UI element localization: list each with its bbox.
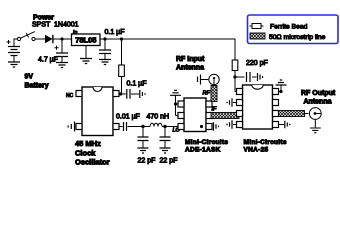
switch S1 SPST bbox=[17, 32, 35, 41]
svg-text:45 MHz: 45 MHz bbox=[75, 139, 101, 148]
svg-text:470 nH: 470 nH bbox=[147, 114, 170, 121]
capacitor C9 220pF bbox=[235, 72, 257, 82]
ground C2 bbox=[99, 60, 111, 65]
capacitor C8 antenna feed bbox=[198, 75, 201, 85]
regulator U1 78L05 bbox=[72, 34, 101, 46]
ground amplifier pin4 bbox=[227, 120, 232, 128]
wire antenna to connector bbox=[201, 79, 208, 81]
node junction oscillator branch bbox=[120, 37, 123, 40]
svg-text:22 pF: 22 pF bbox=[160, 158, 178, 165]
label RF Input Antenna bbox=[176, 56, 205, 72]
wire battery plus to switch bbox=[14, 39, 17, 47]
ground oscillator enable pin bbox=[68, 122, 76, 132]
ground battery bbox=[8, 62, 20, 67]
wire amplifier pin2 bbox=[233, 102, 237, 104]
ground C3 bbox=[140, 90, 145, 98]
capacitor C7 22pF bbox=[160, 127, 171, 149]
label 45 MHz Clock Oscillator bbox=[75, 139, 110, 167]
legend microstrip icon bbox=[250, 33, 265, 39]
legend ferrite bead icon bbox=[250, 24, 264, 29]
inductor L1 470nH bbox=[150, 123, 162, 126]
wire inductor to LO pin bbox=[162, 126, 178, 128]
label Power SPST bbox=[32, 15, 54, 29]
wire output connector shield to ground bbox=[314, 119, 316, 127]
svg-text:RF Input: RF Input bbox=[176, 56, 205, 63]
capacitor C1 4.7uF bbox=[55, 39, 69, 62]
ground amplifier top bbox=[276, 80, 287, 85]
svg-text:ADE-1ASK: ADE-1ASK bbox=[185, 147, 221, 154]
svg-text:NC: NC bbox=[66, 93, 74, 99]
ground C7 bbox=[160, 148, 171, 153]
antenna J2 RF output connector bbox=[309, 108, 321, 120]
ferrite bead FB2 bbox=[232, 60, 238, 71]
microstrip line output bbox=[279, 111, 305, 117]
antenna J1 RF input connector bbox=[209, 74, 219, 85]
wire regulator ground pin bbox=[85, 46, 87, 59]
wire amplifier pin8 to ground bbox=[279, 85, 282, 91]
capacitor C5 0.01uF bbox=[124, 122, 127, 131]
wire battery minus to ground bbox=[13, 56, 15, 63]
ground amplifier pin5 bbox=[285, 121, 290, 129]
capacitor C3 0.1uF bbox=[122, 89, 140, 99]
svg-text:Mini-Circuits: Mini-Circuits bbox=[244, 139, 287, 146]
svg-text:Oscillator: Oscillator bbox=[75, 158, 110, 167]
svg-text:1N4001: 1N4001 bbox=[54, 22, 79, 29]
wire oscillator output bbox=[119, 126, 150, 128]
svg-text:9V: 9V bbox=[25, 74, 34, 81]
ground mixer bbox=[170, 90, 181, 95]
diode D1 1N4001 bbox=[45, 35, 53, 43]
svg-text:220 pF: 220 pF bbox=[246, 60, 268, 67]
node junction L1 left bbox=[141, 125, 144, 128]
legend box bbox=[248, 15, 339, 44]
node junction C3 bbox=[119, 92, 122, 95]
node junction pin8 bbox=[279, 90, 282, 93]
svg-text:0.1 µF: 0.1 µF bbox=[127, 81, 147, 88]
label RF Output Antenna bbox=[301, 90, 336, 106]
svg-text:0.1 µF: 0.1 µF bbox=[105, 29, 125, 36]
svg-text:RF Output: RF Output bbox=[301, 90, 336, 97]
battery B1 9V bbox=[7, 40, 21, 56]
svg-text:Antenna: Antenna bbox=[304, 99, 332, 106]
wire diode to regulator input bbox=[54, 38, 72, 40]
node junction C2 bbox=[103, 37, 106, 40]
wire oscillator supply branch bbox=[119, 39, 122, 94]
oscillator U2 45MHz bbox=[76, 87, 119, 136]
ground C1 bbox=[56, 63, 68, 68]
mixer U3 ADE-1ASK bbox=[178, 98, 212, 132]
svg-text:Clock: Clock bbox=[75, 148, 96, 157]
svg-text:Antenna: Antenna bbox=[176, 65, 204, 72]
svg-text:In: In bbox=[73, 30, 78, 36]
microstrip line IF bbox=[211, 113, 239, 119]
ground output connector bbox=[310, 128, 321, 133]
wire supply to amplifier bbox=[235, 71, 237, 92]
ground amplifier pin2 bbox=[227, 98, 232, 106]
amplifier U4 VNA-25 bbox=[237, 85, 279, 129]
svg-text:22 pF: 22 pF bbox=[138, 158, 156, 165]
wire amplifier pin5 bbox=[279, 124, 285, 126]
capacitor C2 0.1uF bbox=[99, 39, 111, 59]
ground C9 bbox=[258, 73, 263, 81]
svg-text:VNA-25: VNA-25 bbox=[244, 147, 269, 154]
svg-text:0.01 µF: 0.01 µF bbox=[116, 114, 140, 121]
ground U1 bbox=[80, 59, 92, 64]
microstrip line RF bbox=[211, 86, 217, 102]
ground mixer IF return bbox=[214, 122, 219, 130]
wire mixer ground pins bbox=[176, 96, 179, 116]
ferrite bead FB1 bbox=[119, 65, 125, 77]
label 9V Battery bbox=[25, 74, 49, 90]
node junction C1 bbox=[60, 37, 63, 40]
wire switch to diode bbox=[35, 38, 45, 40]
label Mini-Circuits VNA-25 bbox=[244, 139, 287, 154]
svg-text:IF: IF bbox=[212, 107, 218, 113]
node junction L1 right bbox=[163, 125, 166, 128]
svg-text:50Ω microstrip line: 50Ω microstrip line bbox=[269, 34, 326, 41]
svg-text:Ferrite Bead: Ferrite Bead bbox=[270, 24, 308, 31]
node junction mixer ground bbox=[174, 102, 177, 105]
svg-text:RF: RF bbox=[203, 91, 211, 97]
wire microstrip to output connector bbox=[305, 113, 309, 115]
node junction C9 bbox=[233, 75, 236, 78]
svg-text:Mini-Circuits: Mini-Circuits bbox=[185, 139, 228, 146]
svg-text:SPST: SPST bbox=[32, 22, 51, 29]
svg-text:Battery: Battery bbox=[25, 83, 49, 90]
wire amplifier pin4 bbox=[233, 124, 237, 126]
svg-text:4.7 µF: 4.7 µF bbox=[38, 57, 58, 64]
svg-text:78L05: 78L05 bbox=[75, 36, 96, 45]
wire +5V rail bbox=[100, 39, 235, 60]
capacitor C6 22pF bbox=[138, 127, 149, 149]
ground C6 bbox=[138, 148, 149, 153]
label Mini-Circuits ADE-1ASK bbox=[185, 139, 228, 154]
svg-text:Power: Power bbox=[33, 15, 54, 22]
